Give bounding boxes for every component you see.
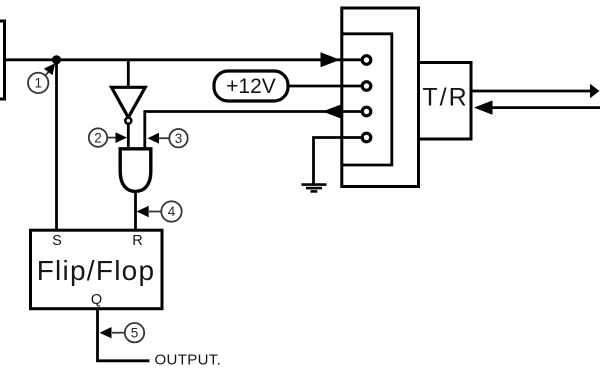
wire receive in [492, 106, 600, 109]
T/R box [419, 63, 472, 140]
ground [302, 185, 327, 192]
connector inner body [342, 34, 392, 165]
inverter (NOT gate) [112, 87, 146, 117]
arrow receive (pointing left) [474, 100, 493, 114]
svg-text:OUTPUT.: OUTPUT. [155, 351, 222, 368]
node 3 [148, 129, 188, 147]
arrow into pin 1 [321, 52, 341, 67]
connector pin 1 [362, 56, 371, 65]
svg-text:S: S [52, 233, 62, 249]
svg-text:5: 5 [131, 325, 139, 340]
svg-text:Flip/Flop: Flip/Flop [37, 255, 156, 286]
connector pin 2 [362, 82, 371, 91]
wire pin 4 to ground [314, 138, 362, 185]
arrow on pin 3 wire (pointing left) [323, 104, 342, 119]
svg-text:2: 2 [94, 130, 102, 145]
svg-text:3: 3 [175, 131, 183, 146]
box left source (partial) [0, 21, 5, 99]
wire to inverter input [127, 60, 130, 88]
svg-text:4: 4 [168, 204, 176, 219]
wire junction to S input [55, 60, 58, 231]
node 5 [100, 323, 145, 342]
wire inverter output to gate input [127, 124, 130, 151]
node 4 [137, 201, 182, 221]
wire connector pin 3 to gate input [145, 112, 361, 152]
svg-text:1: 1 [34, 76, 42, 91]
connector pin 4 [362, 133, 371, 142]
arrow transmit (pointing right) [590, 84, 600, 98]
svg-text:+12V: +12V [226, 75, 276, 98]
wire Q output [98, 309, 150, 361]
flip-flop U1 [31, 230, 163, 309]
node 2 [89, 128, 127, 146]
supply +12V [214, 71, 288, 101]
wire main horizontal to connector pin 1 [4, 58, 361, 61]
node 1 [28, 63, 55, 93]
connector outer housing [342, 8, 419, 187]
AND gate (U-shape, inputs on top) [120, 149, 151, 192]
wire transmit out [471, 90, 592, 93]
svg-text:T/R: T/R [422, 84, 468, 112]
wire gate output to R input [134, 191, 137, 231]
connector pin 3 [362, 107, 371, 116]
inverter bubble [125, 118, 131, 124]
junction dot [52, 55, 61, 64]
svg-text:R: R [132, 233, 142, 249]
wire +12V to pin 2 [288, 85, 361, 88]
svg-text:Q: Q [91, 292, 102, 308]
